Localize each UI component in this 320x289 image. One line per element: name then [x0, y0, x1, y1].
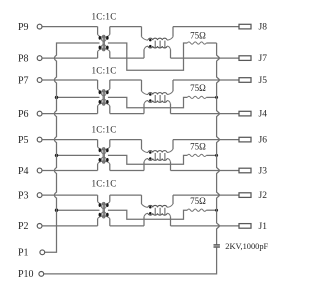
svg-text:1C:1C: 1C:1C [91, 125, 116, 135]
svg-text:P9: P9 [18, 22, 29, 33]
wire P6 to transformer T2 primary bottom [42, 113, 97, 115]
wire choke L1 to J7 [171, 57, 239, 59]
wire transformer T1 secondary bottom to choke L1 [110, 57, 144, 59]
wire P4 to transformer T3 primary bottom [42, 170, 97, 172]
wire choke L2 to J5 [173, 79, 239, 81]
wire secondary center tap T4 to resistor R4 [108, 210, 187, 219]
common termination line (secondary center taps) to capacitor [217, 43, 220, 245]
wire resistor R2 to common line [206, 96, 216, 98]
wire secondary center tap T1 to resistor R1 [108, 43, 187, 70]
connector pin J4 [239, 110, 267, 120]
wire transformer T2 secondary top to choke L2 [110, 79, 142, 81]
wire primary center tap T2 to bus [57, 96, 100, 98]
wire transformer T4 secondary bottom to choke L4 [110, 225, 144, 227]
svg-text:J7: J7 [259, 54, 268, 64]
wire transformer T2 secondary bottom to choke L2 [110, 113, 144, 115]
junction dot on common line (R3) [215, 154, 218, 157]
pin P6 [18, 109, 42, 120]
svg-text:J6: J6 [259, 136, 268, 146]
junction dot on bus (T2 center tap) [55, 96, 58, 99]
pin P10 [18, 269, 44, 280]
wire resistor R3 to common line [206, 154, 216, 156]
connector pin J8 [239, 23, 267, 33]
junction dot on bus (T3 center tap) [55, 154, 58, 157]
svg-text:1C:1C: 1C:1C [91, 12, 116, 22]
wire transformer T3 secondary top to choke L3 [110, 139, 142, 141]
transformer T1 (1C:1C) center-tapped [98, 27, 110, 58]
svg-text:J3: J3 [259, 167, 268, 177]
svg-text:75Ω: 75Ω [190, 30, 206, 40]
connector pin J2 [239, 191, 267, 201]
wire choke L3 to J6 [173, 139, 239, 141]
resistor R3 75 ohm [187, 141, 206, 156]
resistor R1 75 ohm [187, 30, 206, 44]
wire secondary center tap T2 to resistor R2 [108, 97, 187, 107]
wire resistor R1 to common line [206, 42, 216, 44]
common-mode choke L4 [142, 195, 174, 226]
wire P8 to transformer T1 primary bottom [42, 57, 97, 59]
wire transformer T4 secondary top to choke L4 [110, 194, 142, 196]
pin P2 [18, 221, 42, 232]
wire choke L1 to J8 [173, 26, 239, 28]
pin P1 [18, 248, 45, 259]
svg-text:P2: P2 [18, 221, 29, 232]
pin P3 [18, 190, 42, 201]
svg-text:J8: J8 [259, 23, 268, 33]
svg-text:P6: P6 [18, 109, 29, 120]
svg-text:75Ω: 75Ω [190, 141, 206, 151]
wire primary center tap T3 to bus [57, 154, 100, 156]
transformer T2 (1C:1C) center-tapped [98, 80, 110, 114]
capacitor C1 2KV 1000pF [214, 242, 269, 251]
connector pin J3 [239, 167, 267, 177]
wire choke L2 to J4 [171, 113, 239, 115]
wire choke L4 to J2 [173, 194, 239, 196]
junction dot on common line (R2) [215, 96, 218, 99]
svg-text:P7: P7 [18, 75, 29, 86]
wire capacitor C1 to P10 [44, 247, 217, 274]
common-mode choke L2 [142, 80, 174, 114]
svg-text:1C:1C: 1C:1C [91, 66, 116, 76]
wire primary center tap T4 to bus [57, 209, 100, 211]
svg-text:J4: J4 [259, 110, 268, 120]
connector pin J5 [239, 76, 267, 86]
svg-text:75Ω: 75Ω [190, 196, 206, 206]
svg-text:P10: P10 [18, 269, 34, 280]
center-tap bus (primary side, to P1) with wire hops [45, 43, 100, 252]
svg-text:75Ω: 75Ω [190, 83, 206, 93]
junction dot on common line (R4) [215, 209, 218, 212]
connector pin J6 [239, 136, 267, 146]
pin P7 [18, 75, 42, 86]
wire choke L3 to J3 [171, 170, 239, 172]
pin P9 [18, 22, 42, 33]
connector pin J1 [239, 222, 267, 232]
pin P8 [18, 53, 42, 64]
wire P2 to transformer T4 primary bottom [42, 225, 97, 227]
wire P7 to transformer T2 primary top [42, 79, 97, 81]
svg-text:J5: J5 [259, 76, 268, 86]
pin P4 [18, 166, 42, 177]
wire choke L4 to J1 [171, 225, 239, 227]
transformer T4 (1C:1C) center-tapped [98, 195, 110, 226]
wire transformer T3 secondary bottom to choke L3 [110, 170, 144, 172]
pin P5 [18, 135, 42, 146]
wire secondary center tap T3 to resistor R3 [108, 155, 187, 164]
svg-text:J1: J1 [259, 222, 268, 232]
wire resistor R4 to common line [206, 209, 216, 211]
connector pin J7 [239, 54, 267, 64]
svg-text:J2: J2 [259, 191, 268, 201]
resistor R2 75 ohm [187, 83, 206, 99]
common-mode choke L3 [142, 140, 174, 171]
junction dot on bus (T4 center tap) [55, 209, 58, 212]
wire transformer T1 secondary top to choke L1 [110, 26, 142, 28]
svg-text:1C:1C: 1C:1C [91, 179, 116, 189]
svg-text:P4: P4 [18, 166, 29, 177]
svg-text:P8: P8 [18, 53, 29, 64]
wire P9 to transformer T1 primary top [42, 26, 97, 28]
svg-text:P5: P5 [18, 135, 29, 146]
svg-text:P1: P1 [18, 248, 29, 259]
common-mode choke L1 [142, 27, 174, 58]
transformer T3 (1C:1C) center-tapped [98, 140, 110, 171]
wire P5 to transformer T3 primary top [42, 139, 97, 141]
wire P3 to transformer T4 primary top [42, 194, 97, 196]
resistor R4 75 ohm [187, 196, 206, 211]
svg-text:2KV,1000pF: 2KV,1000pF [225, 242, 268, 251]
svg-text:P3: P3 [18, 190, 29, 201]
